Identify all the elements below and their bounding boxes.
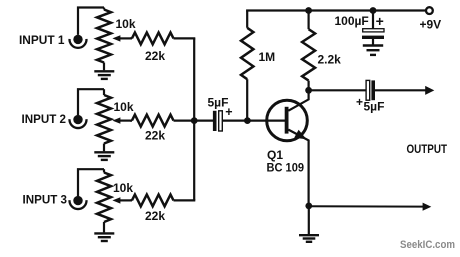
ground below C2 (363, 44, 383, 46)
potentiometer VR2 wiper arrow (118, 119, 132, 121)
svg-text:OUTPUT: OUTPUT (407, 142, 448, 156)
wire R1 to mixing bus (174, 37, 196, 39)
wire J2 to VR2 top (78, 89, 104, 115)
resistor R4 1M (246, 79, 248, 120)
wire rail to C2 (372, 11, 374, 30)
input jack J2 (73, 115, 82, 124)
ground below VR3 (94, 232, 114, 234)
wire J1 to VR1 top (78, 8, 104, 35)
junction node emitter (305, 203, 312, 210)
svg-text:5µF: 5µF (364, 99, 385, 113)
capacitor C3 5uF right plate (solid) (371, 80, 375, 100)
transistor Q1 emitter lead with arrow (288, 130, 308, 206)
svg-text:10k: 10k (114, 100, 134, 114)
svg-text:10k: 10k (116, 17, 136, 31)
svg-text:+: + (356, 95, 363, 109)
junction node rail / R5 (305, 7, 312, 14)
svg-text:1M: 1M (259, 50, 276, 64)
junction node rail / C2 (370, 7, 377, 14)
wire emitter node to ground (308, 206, 310, 234)
svg-text:BC 109: BC 109 (267, 160, 305, 174)
capacitor C2 100uF bottom plate (solid) (362, 36, 384, 39)
capacitor C1 5uF left plate (solid) (213, 111, 217, 131)
wire VR3 to ground (103, 222, 105, 232)
potentiometer VR2 10k body (103, 89, 105, 95)
wire J3 to VR3 top (78, 169, 104, 196)
svg-text:100µF: 100µF (335, 14, 369, 28)
svg-text:INPUT 1: INPUT 1 (19, 33, 65, 47)
ground below VR2 (94, 151, 114, 153)
svg-text:22k: 22k (145, 129, 165, 143)
wire VR2 to ground (103, 144, 105, 152)
resistor R2 22k (130, 119, 132, 121)
svg-text:SeekIC.com: SeekIC.com (400, 239, 455, 251)
transistor Q1 base bar (285, 107, 289, 134)
input jack J1 (73, 35, 82, 44)
transistor Q1 circle (267, 100, 308, 141)
svg-text:10k: 10k (113, 181, 133, 195)
wire C3 to output arrow (375, 89, 426, 91)
potentiometer VR1 wiper arrow (118, 37, 132, 39)
resistor R3 22k (130, 199, 132, 201)
svg-text:+9V: +9V (420, 18, 442, 32)
capacitor C1 5uF right plate (hollow) (219, 111, 223, 131)
resistor R1 22k (130, 37, 132, 39)
junction node bus / C1 line (191, 117, 198, 124)
wire collector to C3 (309, 89, 367, 91)
capacitor C2 100uF top plate (hollow) (363, 29, 384, 32)
mixing bus vertical wire (193, 38, 195, 200)
output arrowhead bottom (423, 203, 432, 211)
svg-text:22k: 22k (145, 209, 165, 223)
ground below VR1 (94, 70, 114, 72)
potentiometer VR1 10k body (103, 8, 105, 10)
wire R2 to mixing bus (174, 119, 196, 121)
input jack J3 (73, 196, 82, 205)
svg-text:INPUT 2: INPUT 2 (22, 112, 67, 126)
wire emitter node to output arrow (309, 205, 423, 207)
ground below emitter (299, 234, 319, 236)
junction node collector (305, 87, 312, 94)
potentiometer VR3 wiper arrow (118, 199, 132, 201)
svg-text:2.2k: 2.2k (318, 53, 342, 67)
output arrowhead top (425, 86, 434, 95)
wire R3 to mixing bus (174, 199, 196, 201)
wire VR1 to ground (103, 63, 105, 71)
svg-text:22k: 22k (145, 49, 165, 63)
V+ supply rail wire (246, 9, 425, 11)
junction node base / R4 (244, 117, 251, 124)
svg-text:+: + (376, 13, 384, 29)
wire C1 to base node (223, 119, 286, 121)
svg-text:INPUT 3: INPUT 3 (23, 193, 68, 207)
wire bus to C1 (194, 119, 213, 121)
wire C2 to ground (372, 39, 374, 45)
potentiometer VR3 10k body (103, 169, 105, 172)
transistor Q1 collector lead (288, 90, 308, 110)
capacitor C3 5uF left plate (hollow) (366, 80, 370, 100)
svg-text:+: + (225, 105, 232, 119)
resistor R5 2.2k (308, 11, 310, 30)
+9V terminal circle (426, 7, 433, 14)
